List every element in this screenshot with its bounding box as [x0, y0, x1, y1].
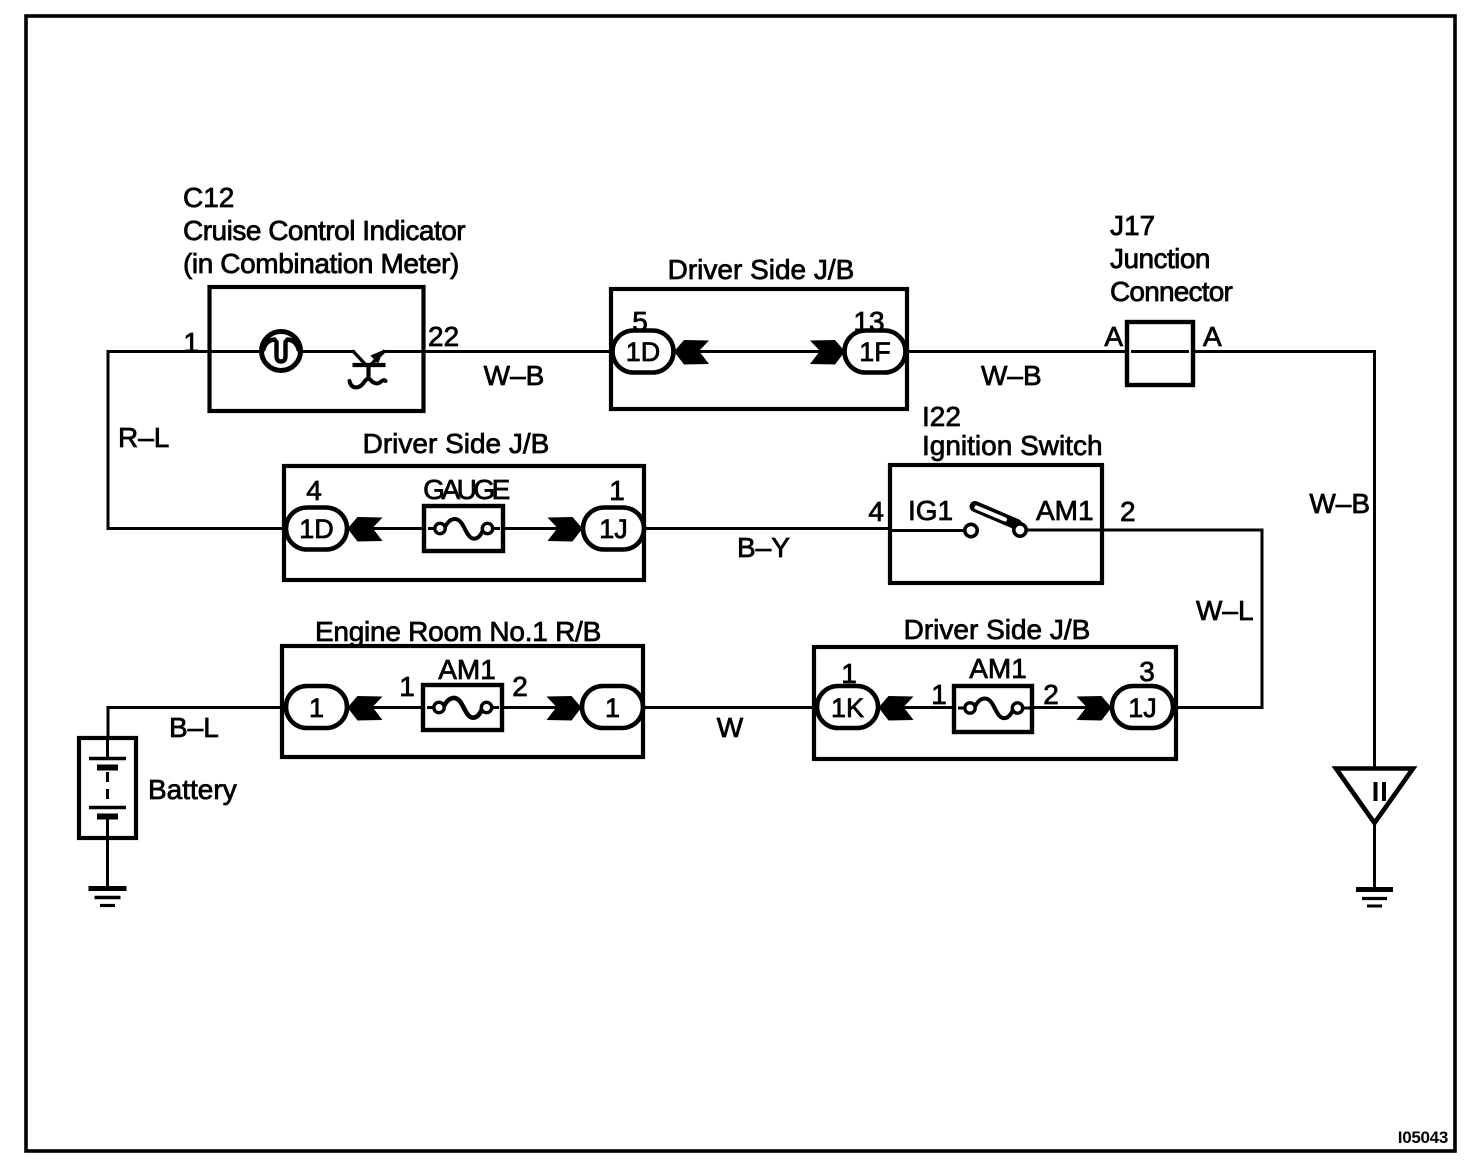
arrow into 1J (middle): [548, 517, 583, 542]
bulb (cruise indicator lamp): [262, 332, 301, 371]
arrow into oval 1 (right): [547, 696, 582, 721]
engine room no.1 R/B box: [282, 646, 643, 757]
svg-text:22: 22: [428, 321, 459, 352]
svg-text:Connector: Connector: [1110, 276, 1232, 307]
fuse AM1 (bottom J/B): [954, 686, 1032, 732]
arrow into 1J (bottom): [1077, 696, 1112, 721]
switch contacts and lever: [965, 507, 1026, 537]
svg-text:B–Y: B–Y: [737, 532, 790, 563]
wire from AM1 contact to box right: [1026, 529, 1102, 532]
label Driver Side J/B (top): [668, 254, 855, 285]
svg-text:1D: 1D: [626, 337, 661, 367]
label R-L: [118, 422, 169, 453]
wire W-B from 1F to J17: [905, 350, 1127, 353]
wire inside bottom J/B: [877, 706, 1113, 709]
label J17 Junction Connector: [1110, 210, 1232, 307]
connector oval 1J (bottom J/B): [1112, 686, 1173, 728]
wire from bulb to transistor: [300, 350, 353, 353]
label B-L: [169, 712, 219, 743]
pin 2 (ignition): [1120, 496, 1136, 527]
connector oval 1D (top J/B): [613, 331, 674, 373]
svg-text:I05043: I05043: [1398, 1128, 1448, 1147]
label B-Y: [737, 532, 790, 563]
svg-text:A: A: [1104, 321, 1123, 352]
pin 13: [853, 306, 884, 337]
svg-text:1F: 1F: [859, 337, 891, 367]
svg-text:1D: 1D: [299, 514, 334, 544]
arrow into 1D: [674, 340, 709, 365]
connector oval 1 (right, engine room R/B): [582, 686, 643, 728]
svg-text:Driver Side J/B: Driver Side J/B: [363, 428, 550, 459]
driver side J/B (middle) box: [284, 466, 644, 580]
label W-L: [1196, 595, 1254, 626]
label I05043 (figure number): [1398, 1128, 1448, 1147]
svg-text:A: A: [1203, 321, 1222, 352]
wire inside engine room R/B: [346, 706, 582, 709]
svg-text:2: 2: [1120, 496, 1136, 527]
wire from box left to IG1 contact: [890, 529, 965, 532]
svg-text:J17: J17: [1110, 210, 1155, 241]
pin 2 (fuse right): [512, 671, 528, 702]
connector oval 1D (middle J/B): [286, 508, 347, 550]
label GAUGE: [423, 474, 509, 505]
label W: [717, 712, 744, 743]
label AM1: [1036, 495, 1094, 526]
arrow into oval 1 (left): [348, 696, 383, 721]
label Driver Side J/B (bottom): [904, 614, 1091, 645]
pin 1 (fuse left): [399, 671, 415, 702]
svg-text:(in Combination Meter): (in Combination Meter): [183, 248, 459, 279]
wire W-L from ignition down to bottom J/B 1J: [1102, 530, 1262, 708]
pin 5: [632, 306, 648, 337]
label Driver Side J/B (middle): [363, 428, 550, 459]
wire R-L from C12 pin 1 left, down and right to mid J/B: [108, 352, 286, 529]
label I22 Ignition Switch: [922, 401, 1103, 461]
svg-text:3: 3: [1139, 656, 1155, 687]
junction connector J17 square: [1127, 322, 1193, 385]
ground (battery): [89, 889, 127, 906]
node A (right of J17): [1203, 321, 1222, 352]
connector oval 1J (middle J/B): [583, 508, 644, 550]
connector oval 1 (left, engine room R/B): [286, 686, 347, 728]
svg-text:C12: C12: [183, 182, 234, 213]
wire from transistor to pin 22: [385, 350, 424, 353]
svg-text:W: W: [717, 712, 744, 743]
svg-text:AM1: AM1: [1036, 495, 1094, 526]
svg-text:1: 1: [309, 693, 324, 723]
pin 4: [306, 475, 322, 506]
svg-text:Ignition Switch: Ignition Switch: [922, 430, 1103, 461]
svg-text:GAUGE: GAUGE: [423, 474, 509, 505]
pin 22 of C12: [428, 321, 459, 352]
label Battery: [148, 774, 237, 805]
svg-text:W–B: W–B: [484, 360, 545, 391]
wire from triangle to ground: [1373, 823, 1376, 889]
svg-text:Engine Room No.1 R/B: Engine Room No.1 R/B: [315, 616, 601, 647]
pin 2 (fuse right, bottom J/B): [1043, 679, 1059, 710]
svg-text:Battery: Battery: [148, 774, 237, 805]
svg-text:W–L: W–L: [1196, 595, 1254, 626]
svg-text:Driver Side J/B: Driver Side J/B: [904, 614, 1091, 645]
label W-B: [981, 360, 1042, 391]
svg-text:AM1: AM1: [969, 653, 1027, 684]
svg-text:1J: 1J: [1128, 693, 1157, 723]
ground (right branch): [1356, 890, 1393, 907]
wire inside C12 from pin1 to bulb: [209, 350, 263, 353]
pin 1 (fuse left, bottom J/B): [931, 679, 947, 710]
svg-text:4: 4: [306, 475, 322, 506]
transistor Q (indicator driver): [350, 350, 386, 387]
fuse GAUGE: [424, 506, 503, 551]
svg-text:2: 2: [1043, 679, 1059, 710]
svg-text:1: 1: [399, 671, 415, 702]
arrow into 1K: [879, 696, 914, 721]
battery cell symbol: [89, 738, 126, 838]
svg-text:Junction: Junction: [1110, 243, 1210, 274]
pin 4 (ignition): [868, 496, 884, 527]
arrow into 1F: [810, 340, 845, 365]
svg-text:AM1: AM1: [438, 654, 496, 685]
wire from battery to ground: [106, 838, 109, 888]
svg-text:Driver Side J/B: Driver Side J/B: [668, 254, 855, 285]
wire through J17: [1131, 350, 1189, 353]
svg-text:W–B: W–B: [981, 360, 1042, 391]
pin 1: [609, 475, 625, 506]
wire W from engine room R/B to bottom J/B: [643, 706, 815, 709]
driver side J/B (top) box: [611, 289, 907, 409]
wire inside top J/B: [673, 350, 845, 353]
connector oval 1K (bottom J/B): [817, 686, 878, 728]
svg-text:Cruise Control Indicator: Cruise Control Indicator: [183, 215, 465, 246]
svg-text:1: 1: [605, 693, 620, 723]
pin 3 (above 1J): [1139, 656, 1155, 687]
svg-text:2: 2: [512, 671, 528, 702]
label AM1 (bottom J/B): [969, 653, 1027, 684]
ground triangle II (body ground): [1336, 769, 1413, 824]
label C12 Cruise Control Indicator (in Combination Meter): [183, 182, 465, 279]
label AM1 (engine room): [438, 654, 496, 685]
svg-text:1: 1: [609, 475, 625, 506]
svg-text:R–L: R–L: [118, 422, 169, 453]
svg-text:4: 4: [868, 496, 884, 527]
svg-text:I22: I22: [922, 401, 961, 432]
wire B-Y from middle J/B to ignition switch: [644, 527, 891, 530]
label IG1: [908, 495, 953, 526]
battery box: [79, 738, 136, 838]
arrow into 1D (middle): [348, 517, 383, 542]
pin 1 (above 1K): [841, 658, 857, 689]
indicator lamp unit C12 box: [210, 287, 424, 411]
node A (left of J17): [1104, 321, 1123, 352]
svg-text:1: 1: [183, 327, 199, 358]
svg-text:1J: 1J: [599, 514, 628, 544]
wire B-L from battery up and right to engine room R/B: [108, 708, 286, 740]
label Engine Room No.1 R/B: [315, 616, 601, 647]
label W-B (right branch): [1309, 488, 1370, 519]
wire W-B from C12 to driver side J/B: [424, 350, 612, 353]
svg-text:1K: 1K: [831, 693, 864, 723]
svg-text:IG1: IG1: [908, 495, 953, 526]
fuse AM1 (engine room): [423, 685, 502, 730]
wire W-B from J17 right and down to ground triangle: [1193, 352, 1375, 769]
ignition switch I22 box: [890, 465, 1102, 583]
label W-B: [484, 360, 545, 391]
wire inside middle J/B: [346, 527, 584, 530]
svg-text:W–B: W–B: [1309, 488, 1370, 519]
connector oval 1F (top J/B): [845, 331, 906, 373]
pin 1 of C12: [183, 327, 199, 358]
svg-text:B–L: B–L: [169, 712, 219, 743]
svg-text:1: 1: [931, 679, 947, 710]
driver side J/B (bottom) box: [814, 647, 1176, 759]
